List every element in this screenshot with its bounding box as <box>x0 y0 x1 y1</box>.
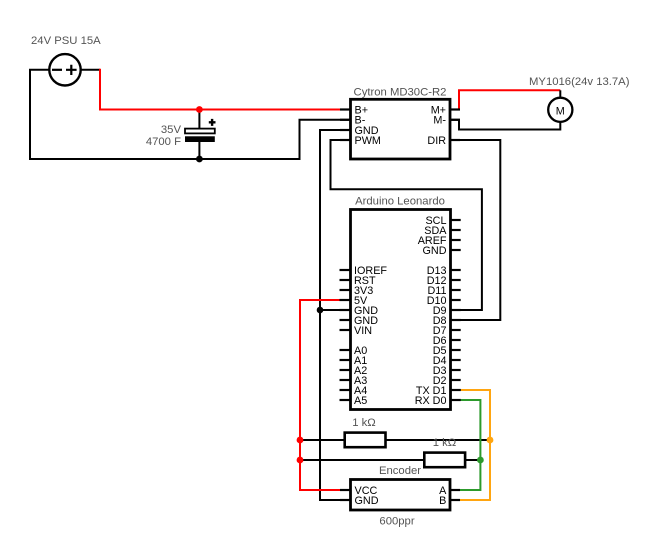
pin stub GND encoder <box>340 499 351 501</box>
svg-text:VIN: VIN <box>354 325 372 337</box>
pin stub RST <box>340 279 351 281</box>
capacitor C1 lead top <box>198 110 200 129</box>
wire M+ pin stub (black) <box>450 109 459 111</box>
junction capacitor positive node <box>196 106 203 113</box>
capacitor C1 negative plate (solid) <box>185 136 215 142</box>
resistor R1 body <box>345 433 386 448</box>
pin stub GND left 1 <box>340 309 351 311</box>
pin stub A1 <box>340 359 351 361</box>
pin stub D8 <box>451 319 461 321</box>
junction orange bus / R1 <box>487 437 494 444</box>
svg-text:24V PSU 15A: 24V PSU 15A <box>31 35 101 47</box>
junction 5V bus / R2 <box>297 457 304 464</box>
capacitor C1 lead bottom <box>198 142 200 159</box>
wire Encoder B pin stub (black) <box>450 499 459 501</box>
pin stub RX D0 <box>451 399 461 401</box>
pin stub SDA <box>451 229 461 231</box>
svg-text:M: M <box>556 106 565 118</box>
svg-text:MY1016(24v 13.7A): MY1016(24v 13.7A) <box>529 76 630 88</box>
pin stub GND <box>340 129 351 131</box>
svg-text:4700 F: 4700 F <box>146 136 181 148</box>
pin stub D11 <box>451 289 461 291</box>
pin stub D4 <box>451 359 461 361</box>
pin stub B- <box>340 119 351 121</box>
pin stub A5 <box>340 399 351 401</box>
svg-text:1 kΩ: 1 kΩ <box>433 437 457 449</box>
svg-text:600ppr: 600ppr <box>379 515 414 527</box>
wire TX D1 pin stub (black) <box>451 389 461 391</box>
pin stub A0 <box>340 349 351 351</box>
pin stub M+ <box>450 108 460 110</box>
wire Encoder B to Arduino TX D1 (orange) <box>459 390 490 500</box>
wire PSU positive to B+ of Cytron (red) <box>100 69 340 110</box>
wire Encoder A to Arduino RX D0 (green) <box>459 400 480 490</box>
pin stub B+ <box>340 108 351 110</box>
wire Encoder A pin stub (black) <box>450 489 459 491</box>
pin stub 5V <box>340 299 351 301</box>
pin stub IOREF <box>340 269 351 271</box>
pin stub D10 <box>451 299 461 301</box>
pin stub DIR <box>450 139 460 141</box>
wire Cytron GND to Encoder GND (black vertical bus) <box>320 130 351 500</box>
svg-text:Arduino Leonardo: Arduino Leonardo <box>355 196 445 208</box>
pin stub M- <box>450 119 460 121</box>
pin stub GND right <box>451 249 461 251</box>
capacitor C1 positive plate (hollow) <box>185 129 215 134</box>
pin stub VCC <box>340 489 351 491</box>
svg-text:M-: M- <box>433 115 446 127</box>
junction capacitor negative node <box>196 156 203 163</box>
pin stub PWM <box>340 139 351 141</box>
capacitor C1 plus sign <box>209 119 216 126</box>
svg-text:1 kΩ: 1 kΩ <box>352 417 376 429</box>
pin stub D13 <box>451 269 461 271</box>
IC U1 Cytron MD30C-R2 box <box>340 99 460 159</box>
svg-text:A5: A5 <box>354 395 367 407</box>
wire branch to Arduino GND pin <box>320 309 351 311</box>
wire PSU negative terminal to B- of Cytron (black, left/bottom loop) <box>30 70 351 159</box>
pin stub VIN <box>340 329 351 331</box>
wire B+ pin stub (black) <box>340 109 351 111</box>
svg-text:B: B <box>439 495 446 507</box>
pin stub B <box>450 499 460 501</box>
pin stub D5 <box>451 349 461 351</box>
pin stub AREF <box>451 239 461 241</box>
wire resistor R2 row (black, 5V bus to green bus) <box>300 459 480 461</box>
wire motor top stub (black) <box>559 90 561 98</box>
wire Cytron DIR to Arduino D8 (black) <box>451 140 501 320</box>
svg-text:GND: GND <box>423 245 447 257</box>
pin stub A <box>450 489 460 491</box>
pin stub D3 <box>451 369 461 371</box>
junction GND branch node <box>317 307 324 314</box>
svg-text:Cytron MD30C-R2: Cytron MD30C-R2 <box>354 86 447 98</box>
junction green bus / R2 <box>477 457 484 464</box>
pin stub D7 <box>451 329 461 331</box>
svg-text:Encoder: Encoder <box>379 465 421 477</box>
pin stub D6 <box>451 339 461 341</box>
svg-text:GND: GND <box>355 495 379 507</box>
pin stub GND left 2 <box>340 319 351 321</box>
power supply 24V PSU symbol <box>49 54 80 85</box>
pin stub D2 <box>451 379 461 381</box>
svg-text:DIR: DIR <box>427 135 446 147</box>
wire RX D0 pin stub (black) <box>451 399 461 401</box>
wire VCC pin stub (black) <box>340 489 351 491</box>
wire Cytron PWM to Arduino D9 (black) <box>331 140 482 310</box>
svg-text:RX D0: RX D0 <box>415 395 447 407</box>
pin stub D9 <box>451 309 461 311</box>
motor M MY1016 symbol <box>548 98 572 122</box>
pin stub 3V3 <box>340 289 351 291</box>
pin stub SCL <box>451 219 461 221</box>
IC U3 Encoder box <box>340 480 460 511</box>
wire Arduino 5V to Encoder VCC (red vertical bus) <box>300 300 340 490</box>
pin stub TX D1 <box>451 389 461 391</box>
IC U2 Arduino Leonardo box <box>340 210 461 410</box>
junction 5V bus / R1 <box>297 437 304 444</box>
wire M- to motor bottom (black) <box>450 120 560 130</box>
svg-text:PWM: PWM <box>355 135 381 147</box>
pin stub A4 <box>340 389 351 391</box>
resistor R2 body <box>424 453 465 468</box>
wire 5V pin stub (black) <box>340 299 351 301</box>
pin stub A3 <box>340 379 351 381</box>
pin stub D12 <box>451 279 461 281</box>
wire resistor R1 row (black, 5V bus to orange bus) <box>300 439 491 441</box>
pin stub A2 <box>340 369 351 371</box>
wire M+ to motor (red) <box>459 90 560 109</box>
svg-text:35V: 35V <box>161 124 182 136</box>
wire PSU positive stub (black) <box>81 69 100 71</box>
